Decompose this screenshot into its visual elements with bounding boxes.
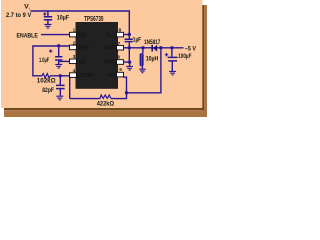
capacitor REF plates <box>55 57 62 60</box>
svg-text:OUT: OUT <box>104 45 115 51</box>
capacitor 100uF lead bottom <box>171 62 173 72</box>
svg-text:6: 6 <box>117 55 120 61</box>
resistor 102k zigzag <box>42 74 50 78</box>
node FB junction dot <box>125 91 128 94</box>
svg-text:422kΩ: 422kΩ <box>97 100 115 107</box>
svg-text:SS: SS <box>79 59 86 65</box>
wire bottom loop right of 422k up to FB <box>111 77 127 98</box>
svg-text:10µF: 10µF <box>57 14 69 21</box>
svg-text:1µF: 1µF <box>133 38 142 44</box>
capacitor C1 input lead top <box>47 11 49 16</box>
capacitor REF lead top <box>58 46 60 56</box>
wire inductor lead top <box>142 48 144 54</box>
schematic peach canvas <box>1 0 202 108</box>
frame dark border right <box>202 5 204 117</box>
svg-text:5: 5 <box>119 67 122 73</box>
node COMP junction dot <box>59 74 62 77</box>
pin 5 stub FB <box>117 72 124 77</box>
svg-text:3: 3 <box>73 54 76 60</box>
capacitor 100uF lead top <box>171 48 173 57</box>
svg-text:2.7 to 9 V: 2.7 to 9 V <box>6 12 32 19</box>
wire output drop vertical <box>160 48 162 93</box>
svg-text:ENABLE: ENABLE <box>17 33 39 40</box>
diode 1N5817 cathode bar <box>151 45 153 52</box>
svg-text:1.0µF: 1.0µF <box>39 57 49 64</box>
capacitor 100uF plus mark <box>165 53 168 56</box>
ground inductor <box>139 69 146 73</box>
wire cap to out rail and gnd row <box>128 42 130 62</box>
wire VI rail <box>31 10 131 12</box>
wire rail drop to cap <box>128 11 130 39</box>
wire pin7 to rail <box>123 47 129 49</box>
node GND junction dot <box>128 60 131 63</box>
svg-text:8: 8 <box>119 28 122 34</box>
wire inductor lead bottom <box>141 66 143 69</box>
wire pin8 to rail <box>123 34 129 36</box>
capacitor 82pF plates <box>56 85 65 88</box>
pin 1 stub EN <box>70 32 77 37</box>
wire bottom loop left of 422k <box>70 98 100 100</box>
node out rail junction dot <box>128 46 131 49</box>
svg-text:4: 4 <box>73 68 76 74</box>
svg-text:–5 V: –5 V <box>185 45 196 52</box>
node REF junction dot <box>57 44 60 47</box>
svg-text:GND: GND <box>104 59 116 65</box>
ground REF cap <box>55 64 62 68</box>
svg-text:10µH: 10µH <box>146 55 159 62</box>
svg-text:82pF: 82pF <box>42 88 54 94</box>
pin 7 stub OUT <box>117 45 124 50</box>
resistor 422k zigzag <box>100 95 111 99</box>
capacitor C1 plus mark <box>43 12 46 15</box>
capacitor C1 plates <box>44 17 52 20</box>
svg-text:EN: EN <box>79 33 87 39</box>
svg-text:100µF: 100µF <box>178 53 191 60</box>
node inductor junction dot <box>141 46 144 49</box>
pin 2 stub REF <box>70 45 77 50</box>
wire EN <box>41 34 70 36</box>
svg-text:I: I <box>29 7 30 11</box>
svg-text:1: 1 <box>73 27 76 33</box>
capacitor REF 1.0uF plus mark <box>49 49 52 52</box>
label VI <box>24 4 30 11</box>
pin 3 stub SS <box>70 59 77 64</box>
ground 82pF <box>56 96 63 100</box>
capacitor 82pF lead top <box>59 76 61 85</box>
svg-text:2: 2 <box>73 40 76 46</box>
frame dark border bottom <box>4 108 204 110</box>
frame shadow right <box>204 5 207 117</box>
ground GND pin <box>126 66 133 70</box>
wire GND pin <box>123 61 129 63</box>
page background <box>0 0 207 117</box>
pin 8 stub VCC <box>117 32 124 37</box>
svg-text:7: 7 <box>118 41 121 47</box>
node output cap junction dot <box>170 46 173 49</box>
wire COMP drop to bottom loop <box>69 76 71 99</box>
capacitor 82pF lead bottom <box>59 89 61 96</box>
wire GND lead <box>129 62 131 66</box>
svg-text:REF: REF <box>79 45 90 51</box>
pin 6 stub GND <box>117 60 124 65</box>
pin 4 stub COMP <box>70 73 77 78</box>
frame shadow bottom <box>4 110 207 117</box>
capacitor C1 lead bottom <box>47 20 49 24</box>
capacitor 100uF plates <box>168 57 178 61</box>
ground input cap <box>44 24 51 28</box>
wire FB node to output drop <box>127 92 162 94</box>
diode 1N5817 triangle <box>153 45 157 52</box>
wire 102k to COMP pin <box>50 75 70 77</box>
node pin8 junction dot <box>128 33 131 36</box>
capacitor 1uF plates <box>125 39 133 41</box>
svg-text:COMP: COMP <box>79 73 94 79</box>
wire OUT rail <box>129 47 183 49</box>
svg-text:TPS6735: TPS6735 <box>84 16 103 23</box>
svg-text:FB: FB <box>108 73 116 79</box>
ground output cap <box>169 71 176 75</box>
wire SS <box>60 60 71 62</box>
capacitor REF lead bottom <box>58 61 60 64</box>
chip TPS6735 body <box>76 22 119 89</box>
node diode junction dot <box>159 46 162 49</box>
svg-text:102kΩ: 102kΩ <box>37 78 56 85</box>
wire REF left loop to 102k <box>33 46 70 76</box>
inductor 10uH body <box>140 53 144 66</box>
